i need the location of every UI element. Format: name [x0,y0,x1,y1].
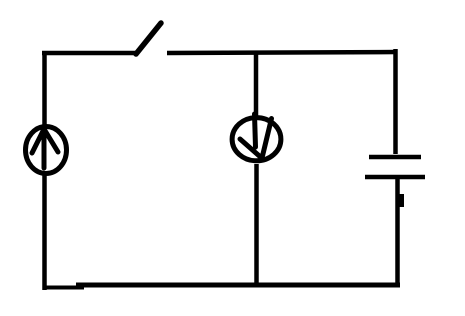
capacitor C1 bottom plate [365,175,425,180]
wire right vertical upper [393,49,398,154]
wire bottom horizontal main [76,283,400,288]
wire top-right horizontal [167,52,397,53]
wire left vertical upper [42,51,47,126]
current source I1 arrow shaft [42,128,47,168]
wire bottom-left short overlap segment [44,286,84,290]
current source I2 arrowhead right stroke [262,119,272,159]
wire top-left horizontal [42,51,138,56]
wire left vertical lower [42,174,47,290]
wire middle vertical upper [254,51,259,116]
current source I2 circle [232,118,281,161]
current source I1 circle [26,127,67,174]
wire right vertical retrace bump [399,194,404,207]
current source I2 arrowhead left stroke [240,139,261,157]
current source I1 arrowhead left stroke [32,129,44,153]
current source I2 arrow shaft [255,114,256,147]
current source I1 arrowhead right stroke [44,129,58,152]
wire middle vertical lower [254,164,259,286]
capacitor C1 top plate [369,155,421,160]
wire right vertical lower [395,179,400,286]
switch blade [136,23,161,54]
